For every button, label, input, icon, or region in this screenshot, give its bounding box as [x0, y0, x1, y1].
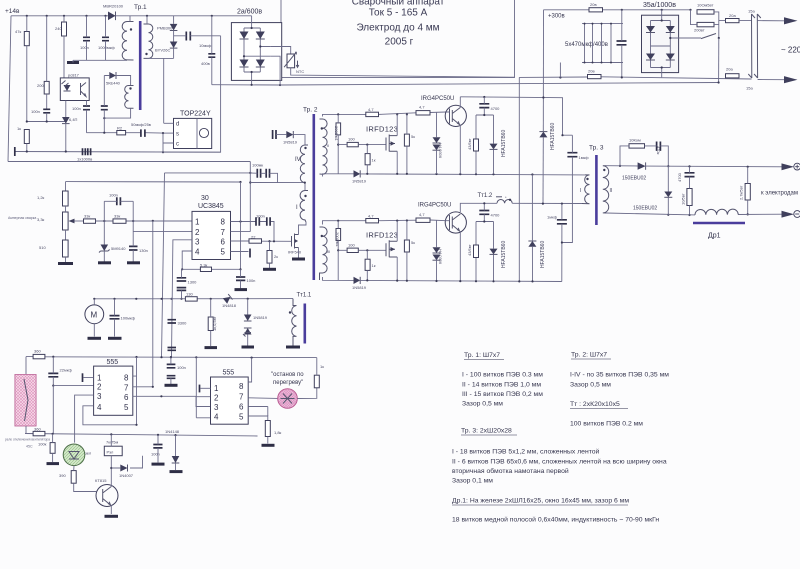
- svg-text:33к: 33к: [84, 214, 90, 219]
- mosfet IRFD123 stage1: [386, 135, 397, 152]
- svg-text:2: 2: [195, 228, 200, 237]
- svg-text:50мкф/25в: 50мкф/25в: [131, 122, 151, 127]
- svg-text:I-IV - по 35 витков ПЭВ 0,35 м: I-IV - по 35 витков ПЭВ 0,35 мм: [570, 372, 669, 379]
- Tr.1 core: [139, 21, 142, 110]
- wire pin3 sense: [172, 240, 193, 357]
- svg-text:IV: IV: [295, 157, 301, 163]
- bridge 35a diode 4: [666, 54, 675, 61]
- svg-text:I - 18 витков ПЭВ 5х1,2 мм, сл: I - 18 витков ПЭВ 5х1,2 мм, сложенных ле…: [452, 448, 600, 456]
- svg-text:4700: 4700: [677, 172, 682, 182]
- svg-text:Тр. 3: Тр. 3: [589, 145, 604, 152]
- optocoupler LED: [64, 85, 71, 91]
- capacitor gate top: [273, 130, 276, 139]
- wire winding I bottom to clamp: [147, 58, 174, 123]
- capacitor 100mkf motor: [110, 316, 120, 319]
- svg-text:PMB300: PMB300: [157, 26, 173, 31]
- svg-text:II: II: [610, 188, 613, 194]
- svg-text:Тр. 2: Тр. 2: [303, 107, 318, 114]
- svg-text:1: 1: [214, 384, 219, 393]
- svg-text:1к: 1к: [372, 263, 376, 268]
- ground 1k: [205, 346, 218, 349]
- ground transistor: [105, 515, 119, 518]
- Tr.2 core: [312, 114, 315, 280]
- svg-text:100n: 100n: [151, 452, 160, 457]
- svg-text:Др1: Др1: [708, 233, 721, 240]
- capacitor 100n: [43, 109, 50, 113]
- svg-text:100: 100: [348, 137, 355, 142]
- ground zener pair: [242, 346, 255, 349]
- pot divider wire down: [65, 182, 67, 191]
- wire B rail long: [280, 83, 718, 86]
- svg-text:22мкф: 22мкф: [60, 368, 73, 373]
- svg-text:HFA15TB60: HFA15TB60: [501, 241, 507, 268]
- svg-text:2,7к/5вт: 2,7к/5вт: [739, 185, 744, 200]
- bridge 2a/600v box: [231, 23, 281, 81]
- capacitor 1300: [177, 278, 187, 291]
- bridge diode 1: [240, 32, 249, 40]
- wire pin2 feedback: [133, 231, 192, 233]
- wire +300v top row: [544, 9, 691, 11]
- wire emitter common stage1: [323, 174, 586, 177]
- capacitor bank stick 2: [592, 24, 594, 63]
- svg-text:100n: 100n: [247, 278, 256, 283]
- wire magenta to 1k: [297, 388, 317, 399]
- wire pin8: [231, 222, 275, 242]
- svg-text:1N5819: 1N5819: [283, 140, 298, 145]
- svg-text:3: 3: [97, 392, 102, 401]
- svg-text:100n: 100n: [256, 214, 265, 219]
- bridge 35a frame: [651, 10, 702, 78]
- wire vref vertical: [240, 182, 242, 269]
- wire pin6 right: [133, 396, 211, 406]
- relay box: [104, 446, 122, 456]
- switch bypass contact: [701, 34, 716, 39]
- svg-text:100мк: 100мк: [252, 163, 263, 168]
- svg-text:1N4007: 1N4007: [119, 473, 134, 478]
- bridge diode 2: [256, 32, 265, 40]
- svg-text:II: II: [327, 143, 329, 148]
- terminal plus: [794, 163, 800, 170]
- svg-text:33к: 33к: [114, 214, 120, 219]
- svg-text:c: c: [176, 142, 179, 148]
- resistor 1.8k: [265, 421, 270, 437]
- svg-text:1300: 1300: [188, 280, 198, 285]
- bridge 35a/1000v box: [642, 15, 679, 72]
- capacitor bar pin1 no2: [199, 385, 201, 393]
- svg-text:100n: 100n: [109, 193, 118, 198]
- svg-text:100мкф: 100мкф: [121, 316, 136, 321]
- wire mains row right: [519, 77, 751, 79]
- wire pin3 to LED: [75, 395, 94, 443]
- motor M: [85, 305, 104, 324]
- svg-text:1N5819: 1N5819: [352, 285, 367, 290]
- svg-text:7: 7: [239, 393, 244, 402]
- svg-text:400в: 400в: [201, 61, 210, 66]
- diode 1N4148 motor row: [223, 294, 233, 304]
- svg-text:6: 6: [221, 237, 226, 246]
- svg-text:1N5819: 1N5819: [352, 179, 367, 184]
- ground 100n lower: [152, 463, 165, 466]
- IGBT Q2: [445, 212, 466, 233]
- svg-text:4: 4: [97, 403, 102, 412]
- wire +14v top rail: [11, 15, 252, 17]
- svg-text:HFA15TB60: HFA15TB60: [501, 130, 507, 157]
- capacitor bank stick 3: [601, 24, 603, 63]
- svg-text:8: 8: [124, 373, 129, 382]
- wire bottom power rail: [323, 277, 562, 282]
- capacitor 1x1000v: [83, 148, 91, 155]
- svg-text:130n: 130n: [139, 248, 148, 253]
- svg-text:1к,0,5вт: 1к,0,5вт: [212, 316, 217, 331]
- svg-text:100 витков ПЭВ 0.2 мм: 100 витков ПЭВ 0.2 мм: [570, 421, 643, 428]
- diode pair stage1: [433, 137, 441, 143]
- svg-text:IRG4PC50U: IRG4PC50U: [421, 96, 454, 102]
- wire gate top row: [276, 135, 305, 145]
- svg-text:555: 555: [107, 359, 119, 366]
- thermal switch pink box: [15, 375, 36, 427]
- svg-text:"останов по: "останов по: [271, 372, 304, 378]
- svg-text:III: III: [327, 249, 330, 254]
- svg-text:IRFD123: IRFD123: [366, 231, 398, 240]
- ground 100mkf: [108, 337, 122, 340]
- svg-text:10/5вт: 10/5вт: [681, 193, 686, 205]
- svg-text:pc817: pc817: [68, 73, 80, 78]
- svg-text:NTC: NTC: [296, 69, 304, 74]
- svg-text:15а: 15а: [748, 9, 755, 14]
- wire pin7: [231, 231, 251, 233]
- capacitor bank main cap: [617, 41, 627, 45]
- winding spec text block: [452, 352, 669, 524]
- svg-text:4,7: 4,7: [368, 107, 374, 112]
- svg-text:Электрод до 4 мм: Электрод до 4 мм: [356, 23, 439, 34]
- wire pin s: [163, 132, 174, 134]
- wire gate drive 1 top row: [323, 112, 447, 117]
- svg-text:555: 555: [223, 370, 235, 377]
- svg-text:8: 8: [221, 217, 226, 226]
- svg-text:6: 6: [239, 402, 244, 411]
- wire caps row: [250, 173, 277, 183]
- svg-text:200: 200: [37, 83, 44, 88]
- svg-text:45С: 45С: [26, 445, 33, 449]
- resistor 200om gate1: [336, 123, 341, 135]
- svg-text:4700: 4700: [491, 213, 501, 218]
- capacitor clamp 47mkf: [186, 32, 190, 41]
- wire bypass down to rail: [718, 38, 720, 83]
- capacitor 3300 sense filter: [168, 320, 177, 323]
- svg-text:5М9140: 5М9140: [111, 246, 126, 251]
- wire left border / +14v down: [8, 16, 11, 162]
- svg-text:20в: 20в: [590, 2, 597, 7]
- capacitor 4700 snubber2: [479, 211, 489, 215]
- svg-text:4: 4: [195, 247, 200, 256]
- wire clamp column: [173, 16, 175, 59]
- svg-text:Сварочный аппарат: Сварочный аппарат: [352, 0, 445, 8]
- svg-text:43/5вт: 43/5вт: [467, 244, 472, 256]
- svg-text:150EBU02: 150EBU02: [633, 206, 657, 212]
- svg-text:Тр. 2: Ш7х7: Тр. 2: Ш7х7: [571, 352, 607, 359]
- svg-text:7: 7: [221, 228, 226, 237]
- ground Tt1.1: [286, 346, 300, 349]
- dual zener pair: [244, 315, 252, 322]
- svg-text:BYV26C: BYV26C: [155, 48, 170, 53]
- svg-text:1х1000в: 1х1000в: [77, 157, 92, 162]
- mosfet IRF540: [292, 234, 299, 249]
- capacitor 100n lower: [153, 445, 162, 448]
- ground: [67, 61, 79, 64]
- svg-text:15а: 15а: [746, 86, 753, 91]
- Tr.2 winding III: [320, 227, 328, 280]
- svg-text:6,4П: 6,4П: [69, 117, 78, 122]
- Tt1.1 winding: [292, 299, 297, 346]
- svg-text:100n: 100n: [31, 109, 40, 114]
- svg-text:6: 6: [124, 393, 129, 402]
- ground 1N4148: [170, 470, 183, 473]
- svg-text:Тт1.1: Тт1.1: [297, 293, 312, 299]
- svg-text:+300в: +300в: [548, 14, 565, 20]
- ground mosfet: [292, 258, 305, 261]
- capacitor 100n 555: [167, 364, 176, 378]
- svg-text:1мкф: 1мкф: [579, 155, 590, 160]
- wire pin8 up: [133, 357, 137, 376]
- terminal minus: [794, 211, 800, 218]
- optocoupler PC817 box: [60, 78, 89, 101]
- wire pin4 rt: [182, 251, 192, 269]
- ground 100k: [47, 462, 60, 465]
- capacitor 100n: [83, 37, 90, 40]
- snubber capacitor 470k: [657, 142, 661, 151]
- wire thermal left top: [25, 357, 27, 375]
- svg-text:360: 360: [34, 427, 41, 432]
- svg-text:HFA15TB60: HFA15TB60: [540, 241, 546, 268]
- svg-text:2а/600в: 2а/600в: [237, 9, 262, 16]
- resistor 43/5vt snubber2: [474, 245, 479, 258]
- resistor 1k 0.5vt: [208, 317, 213, 331]
- svg-text:43/5вт: 43/5вт: [467, 138, 472, 150]
- svg-text:100: 100: [348, 243, 355, 248]
- resistor 10/5vt output: [687, 189, 692, 206]
- svg-text:к электродам: к электродам: [761, 191, 798, 197]
- wire lower row: [25, 434, 258, 437]
- wire motor row: [94, 298, 293, 300]
- svg-text:150EBU02: 150EBU02: [622, 176, 646, 182]
- svg-text:5КЕ440: 5КЕ440: [106, 81, 121, 86]
- Tr.2 winding II: [320, 119, 328, 174]
- svg-text:TOP224Y: TOP224Y: [180, 111, 211, 118]
- svg-text:Н4,0306: Н4,0306: [438, 143, 443, 159]
- wire output plus: [606, 166, 784, 167]
- diode HFA15TB60 snubber2: [490, 249, 498, 255]
- svg-text:1N4148: 1N4148: [165, 429, 180, 434]
- arrow mains top: [784, 17, 798, 24]
- Tr.1 winding III aux: [125, 86, 134, 109]
- capacitor bank stick 4: [610, 24, 612, 63]
- svg-text:20а: 20а: [729, 13, 736, 18]
- wire bridge AC down: [270, 56, 280, 85]
- wire 22mkf to pin2: [53, 386, 93, 434]
- svg-text:7: 7: [124, 384, 129, 393]
- svg-text:100n: 100n: [72, 106, 81, 111]
- capacitor 1mkf primary top: [567, 153, 577, 157]
- svg-text:IRFD123: IRFD123: [366, 125, 398, 134]
- svg-text:5к: 5к: [411, 240, 415, 245]
- svg-text:35а/1000в: 35а/1000в: [643, 2, 676, 9]
- wire to Tr2 winding I top: [250, 183, 305, 191]
- svg-text:IRG4PC50U: IRG4PC50U: [418, 203, 451, 209]
- svg-text:Тт1.2: Тт1.2: [478, 193, 493, 199]
- ground 130n: [127, 261, 140, 264]
- svg-text:18 витков медной полосой 0,6х4: 18 витков медной полосой 0,6х40мм, индук…: [452, 516, 659, 524]
- resistor 43/5vt snubber1: [474, 139, 479, 151]
- wire bottom return: [15, 151, 221, 154]
- svg-text:~ 220: ~ 220: [781, 46, 800, 55]
- LED green: [63, 444, 85, 466]
- inductor Dr1: [695, 209, 738, 215]
- capacitor bar pin5: [249, 249, 251, 258]
- svg-text:Рэл: Рэл: [107, 450, 115, 455]
- svg-text:IRF540: IRF540: [288, 250, 302, 255]
- svg-text:7к/75м: 7к/75м: [106, 440, 119, 445]
- wire feedback row: [87, 132, 164, 134]
- junction dots top rail: [26, 15, 28, 17]
- zener TL431: [101, 245, 109, 252]
- bridge 35a diode 1: [646, 26, 655, 33]
- svg-text:1000мкф: 1000мкф: [98, 45, 115, 50]
- svg-text:HFA15TB60: HFA15TB60: [550, 123, 556, 150]
- wire drain to winding I: [299, 222, 307, 235]
- svg-text:1: 1: [97, 373, 102, 382]
- diode HFA15TB60 rail1: [539, 132, 547, 138]
- overheat indicator magenta: [278, 389, 298, 409]
- svg-text:2005 г: 2005 г: [385, 37, 414, 48]
- svg-text:R2: R2: [117, 126, 123, 131]
- svg-text:2: 2: [214, 393, 219, 402]
- capacitor 4700 output: [685, 173, 695, 177]
- svg-text:1к: 1к: [320, 364, 324, 369]
- ground motor: [88, 337, 102, 340]
- wire gate drive 2 top row: [323, 220, 447, 225]
- resistor 5k stage1: [404, 134, 409, 146]
- svg-text:1: 1: [195, 217, 200, 226]
- svg-text:10мкф: 10мкф: [199, 43, 212, 48]
- wire thermal left bottom: [25, 426, 33, 434]
- wire source to ground: [298, 248, 300, 258]
- resistor 2k: [267, 251, 272, 264]
- wire bridge bottom to rail: [212, 84, 280, 86]
- ground 100n 555: [165, 384, 178, 387]
- svg-text:3300: 3300: [178, 321, 188, 326]
- Tr.1 winding I secondary: [144, 24, 153, 58]
- svg-text:Тр. 1: Ш7х7: Тр. 1: Ш7х7: [464, 352, 500, 359]
- capacitor sense 2: [168, 348, 177, 351]
- IC TOP224Y box: [174, 118, 212, 148]
- wire soft-start links: [691, 10, 719, 38]
- svg-text:II - 14 витков ПЭВ 1,0 мм: II - 14 витков ПЭВ 1,0 мм: [462, 382, 541, 389]
- capacitor 1000mkf: [102, 37, 109, 40]
- optocoupler transistor: [81, 83, 87, 97]
- svg-text:4: 4: [214, 412, 219, 421]
- svg-text:5к: 5к: [411, 134, 415, 139]
- wire bridge AC to NTC: [270, 47, 290, 55]
- bridge 35a diode 3: [646, 54, 655, 61]
- wire pin c: [163, 133, 174, 152]
- svg-text:КТ815: КТ815: [95, 478, 107, 483]
- svg-text:1к: 1к: [17, 126, 21, 131]
- svg-text:2к: 2к: [274, 254, 278, 259]
- capacitor 4700 snubber1: [479, 104, 489, 108]
- diode pair stage2: [433, 247, 441, 253]
- capacitor 100n ct: [236, 277, 245, 280]
- svg-text:1,2к: 1,2к: [37, 195, 45, 200]
- svg-text:M: M: [91, 311, 98, 320]
- wire pin6 gate: [231, 240, 292, 242]
- wire pin7 no2: [248, 397, 278, 400]
- bridge internal frame: [244, 16, 270, 85]
- capacitor aux: [101, 106, 108, 110]
- svg-text:200Ом1: 200Ом1: [335, 232, 340, 248]
- svg-text:4700: 4700: [491, 106, 501, 111]
- svg-text:перегреву": перегреву": [273, 380, 303, 386]
- wire nested border 3 / vref row: [66, 162, 251, 232]
- svg-text:3: 3: [214, 403, 219, 412]
- svg-text:470к: 470к: [656, 146, 661, 155]
- svg-text:Зазор 0,5 мм: Зазор 0,5 мм: [570, 382, 611, 389]
- diode 1N4007: [110, 467, 112, 469]
- wire output snubber: [620, 146, 668, 166]
- svg-text:100к: 100к: [38, 442, 47, 447]
- ground 100n ct: [235, 288, 248, 291]
- wire pin6 pin5 no2: [248, 407, 268, 421]
- svg-text:20а: 20а: [726, 67, 733, 72]
- diode HFA15TB60 rail2: [528, 241, 536, 247]
- capacitor input left: [14, 147, 16, 156]
- svg-text:5: 5: [124, 403, 129, 412]
- svg-text:100n: 100n: [177, 365, 186, 370]
- svg-text:I - 100 витков ПЭВ 0.3 мм: I - 100 витков ПЭВ 0.3 мм: [462, 372, 543, 379]
- capacitor bank stick 1: [584, 24, 586, 63]
- svg-text:47к: 47к: [15, 29, 21, 34]
- svg-text:зел: зел: [85, 451, 92, 456]
- svg-text:Тр.1: Тр.1: [134, 4, 147, 11]
- wire NTC to mains row: [291, 68, 515, 77]
- wire B- vertical: [518, 77, 520, 281]
- svg-text:Тт : 2хК20х10х5: Тт : 2хК20х10х5: [570, 401, 620, 408]
- svg-text:3,3к: 3,3к: [37, 217, 45, 222]
- svg-text:Зазор 0,1 мм: Зазор 0,1 мм: [452, 478, 493, 485]
- Dr1 core bar: [693, 222, 745, 225]
- capacitor 130n: [129, 246, 138, 250]
- svg-text:MBR20100: MBR20100: [103, 4, 124, 9]
- svg-text:Н4,0306: Н4,0306: [438, 249, 443, 265]
- svg-text:100n: 100n: [80, 45, 89, 50]
- junction top: [621, 9, 623, 11]
- resistor 2.7k/5vt output: [745, 184, 750, 201]
- wire pin8 no2: [248, 358, 251, 382]
- svg-text:510: 510: [39, 245, 46, 250]
- svg-text:s: s: [176, 132, 179, 138]
- wire mains neutral out: [758, 79, 784, 81]
- fuse 20v bottom left: [588, 75, 602, 79]
- Tt1.1 core: [303, 304, 306, 344]
- ground 2k: [263, 268, 276, 271]
- wire collector stage2 / CT row: [460, 203, 582, 212]
- svg-text:I: I: [580, 188, 581, 194]
- title box: [281, 0, 515, 78]
- IGBT Q1: [445, 105, 466, 126]
- svg-text:III - 15 витков ПЭВ 0,2 мм: III - 15 витков ПЭВ 0,2 мм: [462, 391, 543, 398]
- wire bias row: [27, 121, 66, 123]
- svg-text:1,8к: 1,8к: [274, 430, 282, 435]
- Tt1.2 CT coil: [497, 200, 512, 204]
